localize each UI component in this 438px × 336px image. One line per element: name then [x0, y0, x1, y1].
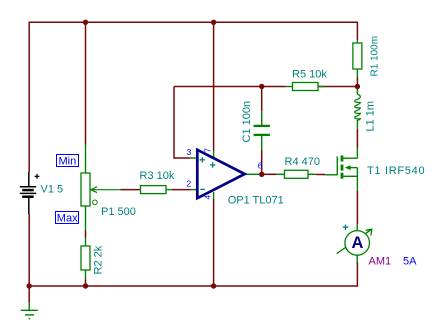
junction ground — [27, 283, 32, 288]
transistor T1 body arrow — [345, 165, 351, 170]
wire R1 to node — [356, 78, 358, 87]
wire R3 to pin2 — [172, 189, 191, 191]
wire node to R5 — [262, 86, 286, 88]
wire bottom rail — [29, 285, 357, 287]
wire R4 to gate — [316, 174, 325, 176]
wire output node to R4 — [262, 173, 277, 175]
wire R5 to right node — [318, 86, 358, 88]
capacitor C1 — [254, 111, 270, 150]
op-amp OP1 — [191, 150, 259, 199]
junction R2 bottom — [83, 283, 88, 288]
svg-text:R5 10k: R5 10k — [292, 69, 327, 81]
wire pin7 supply column — [213, 22, 215, 150]
junction R5 right — [355, 84, 360, 89]
battery plus sign — [35, 174, 40, 179]
wire pot to R2 — [85, 231, 87, 238]
wire top rail — [29, 21, 357, 23]
wire pot column top — [85, 22, 87, 144]
resistor R1 — [353, 40, 362, 78]
svg-text:Min: Min — [59, 155, 77, 167]
resistor R4 — [277, 170, 317, 178]
wire left rail lower — [28, 214, 30, 286]
node label Max — [56, 212, 79, 225]
wire feedback horizontal top — [174, 86, 262, 88]
wire R2 to bottom rail — [85, 280, 87, 287]
junction output node — [259, 172, 264, 177]
ammeter AM1 — [337, 224, 372, 263]
wire pin4 column — [213, 199, 215, 286]
battery V1 — [20, 172, 36, 214]
node label Min — [57, 155, 79, 168]
wire C1 column lower — [261, 150, 263, 174]
wire feedback vertical — [173, 87, 175, 159]
svg-text:AM1: AM1 — [369, 256, 392, 268]
transistor T1 — [325, 148, 357, 191]
svg-text:2: 2 — [186, 178, 191, 188]
svg-text:R4 470: R4 470 — [285, 156, 320, 168]
junction top pin7 — [211, 20, 216, 25]
svg-text:V1 5: V1 5 — [41, 184, 64, 196]
svg-text:OP1 TL071: OP1 TL071 — [228, 195, 284, 207]
svg-text:P1 500: P1 500 — [101, 206, 136, 218]
svg-text:R1 100m: R1 100m — [369, 36, 380, 77]
inductor L1 — [355, 88, 361, 129]
wire source to ammeter — [356, 191, 358, 224]
svg-text:4: 4 — [202, 195, 212, 200]
wire wiper to R3 — [121, 189, 140, 191]
resistor R3 — [141, 186, 172, 194]
junction top pot — [83, 20, 88, 25]
svg-text:Max: Max — [57, 212, 78, 224]
junction pin4 bottom — [211, 283, 216, 288]
wire L1 to drain — [356, 129, 358, 148]
wire C1 column upper — [261, 87, 263, 112]
resistor R2 — [81, 238, 90, 280]
svg-text:5A: 5A — [403, 256, 417, 268]
svg-text:A: A — [351, 234, 363, 252]
svg-text:C1 100n: C1 100n — [241, 101, 253, 143]
wire ground stem upper — [28, 286, 30, 303]
wire ammeter to bottom rail — [356, 263, 358, 287]
svg-text:R3 10k: R3 10k — [140, 170, 175, 182]
ground — [21, 303, 38, 319]
resistor R5 — [286, 83, 326, 91]
wire right rail top corner — [356, 22, 358, 40]
svg-text:7: 7 — [202, 148, 212, 153]
junction feedback C1 — [259, 84, 264, 89]
svg-text:3: 3 — [187, 147, 192, 157]
svg-text:R2 2k: R2 2k — [92, 245, 104, 274]
wire feedback to pin3 — [173, 157, 191, 159]
svg-text:L1 1m: L1 1m — [364, 101, 376, 132]
wire left rail upper — [28, 22, 30, 172]
svg-text:T1 IRF540: T1 IRF540 — [367, 165, 425, 177]
svg-text:6: 6 — [258, 160, 263, 170]
potentiometer P1 — [81, 145, 121, 231]
